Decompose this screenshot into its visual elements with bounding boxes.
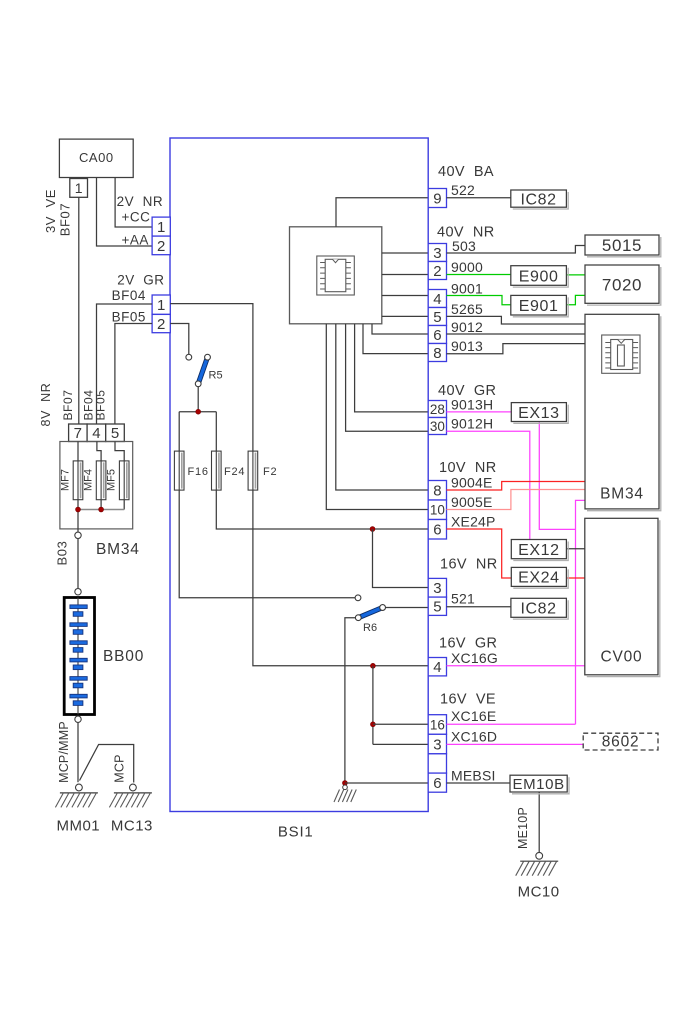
svg-text:5: 5 xyxy=(111,425,119,442)
wire BF05 pin2 to BM34 pin 5 xyxy=(115,324,152,425)
svg-text:F2: F2 xyxy=(263,466,277,478)
wire R6 to pin 5 521 xyxy=(386,607,429,609)
connector EX13 xyxy=(513,405,568,424)
BSI pin 5 (y 597.1) xyxy=(428,597,446,615)
svg-text:40V BA: 40V BA xyxy=(438,164,494,180)
switch R5 xyxy=(198,357,207,384)
BSI pin 2 (2V NR) xyxy=(152,236,170,255)
svg-text:BSI1: BSI1 xyxy=(278,824,314,841)
BM34 pin 7 xyxy=(69,424,88,442)
svg-text:9004E: 9004E xyxy=(451,474,492,490)
svg-text:3: 3 xyxy=(433,736,441,753)
BSI pin 2 (y 261.5) xyxy=(428,262,446,280)
wire branch to pin 3 XC16D xyxy=(373,743,428,745)
svg-text:9005E: 9005E xyxy=(451,494,492,510)
svg-text:6: 6 xyxy=(433,775,441,792)
wire BF07 from CA00 pin1 to BM34 pin 7 xyxy=(78,197,80,424)
wire F16 to switch R6 xyxy=(179,490,355,598)
BSI pin blank (y 753.8) xyxy=(428,754,446,773)
svg-text:MF7: MF7 xyxy=(60,469,72,491)
svg-text:XC16G: XC16G xyxy=(451,650,498,666)
connector IC82 (top) xyxy=(513,192,568,209)
wire R5 to fuse rail xyxy=(197,387,199,412)
wire XE24P to EX24 xyxy=(447,529,512,578)
connector CA00 xyxy=(59,139,133,177)
BSI pin 1 (2V NR) xyxy=(152,217,170,236)
fuse MF4 xyxy=(96,461,106,500)
box BM34 right xyxy=(587,316,661,510)
wire ECU to pin 9 xyxy=(336,198,428,227)
BSI pin 3 (y 243.5) xyxy=(428,244,446,262)
BM34 pin 4 xyxy=(87,424,106,442)
ground MM01 xyxy=(76,784,83,791)
wire 9013 to BM34 xyxy=(447,344,586,354)
BSI pin 10 (y 500) xyxy=(428,500,446,520)
svg-text:MF4: MF4 xyxy=(83,469,95,491)
BSI pin 30 (y 417.5) xyxy=(428,418,446,435)
svg-text:IC82: IC82 xyxy=(520,601,556,618)
connector node above battery xyxy=(75,589,81,595)
box 8602 (dashed) xyxy=(583,733,658,750)
svg-text:6: 6 xyxy=(433,327,441,344)
svg-text:1: 1 xyxy=(75,180,83,196)
wire rail to fuse F16 xyxy=(178,412,180,451)
box CV00 xyxy=(587,520,660,676)
svg-text:BB00: BB00 xyxy=(103,648,144,665)
svg-text:+CC: +CC xyxy=(122,209,151,224)
BSI pin 4 (y 657.5) xyxy=(428,658,446,676)
BSI pin 3 (y 734.3) xyxy=(428,734,446,754)
junction XC16E xyxy=(371,722,376,727)
wire 9013H to EX13 xyxy=(447,411,512,413)
wire 9013H ECU to pin 28 xyxy=(355,324,429,412)
wire MCP to ground MC13 xyxy=(80,745,134,783)
wire 5265 to BM34 xyxy=(447,316,586,324)
wire 522 to IC82 xyxy=(447,197,511,199)
svg-text:5015: 5015 xyxy=(602,236,642,255)
svg-text:5: 5 xyxy=(433,309,441,326)
svg-text:5: 5 xyxy=(433,599,441,616)
junction fusebox rail / MF7 xyxy=(76,507,81,512)
pin 1 of CA00 xyxy=(70,179,88,198)
svg-text:MCP: MCP xyxy=(112,754,126,782)
wire 9005E ECU to pin 10 xyxy=(326,324,428,510)
svg-text:8602: 8602 xyxy=(602,734,640,751)
wire branch to pin 3 16V NR xyxy=(373,529,429,588)
connector EM10B xyxy=(512,777,569,794)
wire XC16G to CV00 xyxy=(447,665,585,667)
wire B03 to battery xyxy=(77,539,79,589)
svg-text:2: 2 xyxy=(157,316,165,333)
svg-text:2V NR: 2V NR xyxy=(117,194,164,209)
wire F2 to pin 4 XC16G xyxy=(253,490,428,666)
svg-text:8: 8 xyxy=(433,483,441,500)
wire EX13 to magenta bus xyxy=(539,422,575,530)
svg-text:522: 522 xyxy=(451,182,475,198)
fuse MF5 xyxy=(119,461,129,500)
fuse feed rail xyxy=(179,411,216,413)
svg-text:E901: E901 xyxy=(519,298,559,315)
svg-text:16V GR: 16V GR xyxy=(439,635,497,651)
svg-text:MCP/MMP: MCP/MMP xyxy=(57,721,71,783)
magenta bus to BM34 xyxy=(576,500,585,724)
wire pin2 2VGR to switch R5 xyxy=(170,324,189,355)
BSI pin 9 (y 188.5) xyxy=(428,189,446,208)
svg-text:R5: R5 xyxy=(209,370,223,382)
svg-text:9000: 9000 xyxy=(451,259,483,275)
svg-text:521: 521 xyxy=(451,591,475,607)
svg-text:2: 2 xyxy=(433,263,441,280)
svg-text:CA00: CA00 xyxy=(79,150,114,165)
svg-text:BM34: BM34 xyxy=(96,541,140,558)
svg-text:EX13: EX13 xyxy=(518,405,560,422)
svg-text:IC82: IC82 xyxy=(520,191,556,208)
connector EX12 xyxy=(513,542,568,561)
svg-text:4: 4 xyxy=(433,291,441,308)
fuse F24 xyxy=(212,451,222,490)
wire to pin 6 MEBSI xyxy=(345,782,428,784)
svg-text:3: 3 xyxy=(433,580,441,597)
ECU box BSI1 xyxy=(170,138,428,812)
wire rail to fuse F24 xyxy=(215,412,217,451)
svg-text:16V NR: 16V NR xyxy=(440,557,498,573)
svg-text:BF05: BF05 xyxy=(112,310,146,325)
svg-text:1: 1 xyxy=(157,297,165,314)
svg-text:MF5: MF5 xyxy=(106,469,118,491)
svg-text:EX24: EX24 xyxy=(518,570,560,587)
svg-text:7: 7 xyxy=(74,425,82,442)
svg-text:9013H: 9013H xyxy=(451,396,493,412)
wire 9001 to E901 xyxy=(447,296,511,305)
connector IC82 (lower) xyxy=(513,600,568,619)
svg-text:10: 10 xyxy=(430,503,445,518)
svg-text:B03: B03 xyxy=(55,541,70,566)
svg-text:503: 503 xyxy=(452,238,476,254)
wire F24 to pin 6 XE24P xyxy=(216,490,428,529)
switch R6 xyxy=(358,608,382,618)
fusebox BM34 outline xyxy=(60,442,133,529)
wire 9012H ECU to pin 30 xyxy=(346,324,429,432)
wire 503 to 5015 xyxy=(447,246,586,254)
svg-text:MM01: MM01 xyxy=(56,818,100,835)
battery BB00 xyxy=(64,598,94,715)
wire branch to pin 16 XC16E xyxy=(373,723,428,725)
wire E900 to 7020 xyxy=(566,274,585,276)
svg-text:XC16D: XC16D xyxy=(451,729,497,745)
junction XE24P / 16V NR branch xyxy=(370,527,375,532)
svg-text:MC10: MC10 xyxy=(518,884,560,901)
BSI pin 16 (y 714.7) xyxy=(428,715,446,735)
IC chip symbol xyxy=(325,259,346,291)
wire pin4 to fuse MF4 xyxy=(97,442,101,510)
fuse MF7 xyxy=(73,461,83,500)
svg-text:6: 6 xyxy=(433,522,441,539)
wire E901 to 7020 xyxy=(566,295,585,304)
BSI pin 2 (2V GR) xyxy=(152,314,170,332)
svg-text:EX12: EX12 xyxy=(518,542,560,559)
wire R6 to internal ground xyxy=(345,618,356,783)
wire 503 ECU to pin 3 xyxy=(382,252,428,254)
svg-text:9012H: 9012H xyxy=(451,416,493,432)
wire MEBSI to EM10B xyxy=(447,782,511,784)
IC symbol frame xyxy=(317,256,355,295)
wire 9004E to BM34 xyxy=(447,482,585,491)
svg-text:3V VE: 3V VE xyxy=(43,189,58,233)
svg-text:BF05: BF05 xyxy=(94,389,108,420)
wire 9012 to BM34 xyxy=(447,333,586,335)
svg-text:F16: F16 xyxy=(188,466,209,478)
BSI pin 4 (y 289.5) xyxy=(428,290,446,308)
connector node below battery xyxy=(75,716,81,722)
wire 9000 to E900 xyxy=(447,274,511,276)
wire XC16D to 8602 xyxy=(447,743,584,745)
BSI pin 1 (2V GR) xyxy=(152,295,170,314)
svg-text:XC16E: XC16E xyxy=(451,708,496,724)
BSI pin 8 (y 480.5) xyxy=(428,481,446,501)
wire 521 to IC82 xyxy=(447,606,511,608)
svg-text:5265: 5265 xyxy=(451,301,483,317)
svg-text:9: 9 xyxy=(433,190,441,207)
svg-text:30: 30 xyxy=(430,419,445,434)
BSI pin 5 (y 307.5) xyxy=(428,308,446,326)
svg-text:1: 1 xyxy=(157,219,165,236)
svg-text:9001: 9001 xyxy=(451,280,483,296)
box 5015 xyxy=(587,237,661,257)
BSI pin 28 (y 400.5) xyxy=(428,401,446,418)
wire 9001 ECU to pin 4 xyxy=(382,295,428,297)
svg-text:16: 16 xyxy=(430,717,445,732)
svg-text:4: 4 xyxy=(92,425,100,442)
svg-text:XE24P: XE24P xyxy=(451,514,496,530)
junction MEBSI / ground xyxy=(343,781,348,786)
wire EX12 to CV00 xyxy=(566,548,584,550)
wire 9005E to BM34 xyxy=(447,490,585,510)
internal ground of BSI1 xyxy=(343,785,348,790)
connector E901 xyxy=(513,297,568,316)
svg-text:BF07: BF07 xyxy=(58,203,73,236)
svg-text:F24: F24 xyxy=(224,466,245,478)
BM34 fusebox pin 5 xyxy=(106,424,125,442)
svg-text:28: 28 xyxy=(430,402,445,417)
wire 9012H to EX12 xyxy=(447,431,530,539)
svg-text:16V VE: 16V VE xyxy=(440,692,496,708)
wire 9004E ECU to pin 8 xyxy=(336,324,428,490)
connector node below fusebox xyxy=(75,532,81,538)
svg-text:2V GR: 2V GR xyxy=(117,272,164,287)
wire 5265 ECU to pin 5 xyxy=(382,315,428,317)
wire +AA from CA00 to BSI pin 2 xyxy=(97,178,153,247)
svg-text:BF04: BF04 xyxy=(112,288,146,303)
box 7020 xyxy=(587,267,661,305)
wire 9000 ECU to pin 2 xyxy=(382,274,428,276)
ground MC13 xyxy=(130,784,137,791)
wire through fuse MF7 xyxy=(77,442,79,532)
svg-text:3: 3 xyxy=(433,245,441,262)
svg-text:BM34: BM34 xyxy=(600,486,644,503)
svg-text:8: 8 xyxy=(433,345,441,362)
connector E900 xyxy=(513,268,568,287)
internal ECU block xyxy=(290,227,382,324)
wire MCP/MMP battery to ground MM01 xyxy=(77,723,79,783)
svg-text:BF07: BF07 xyxy=(61,389,75,420)
ground MC10 xyxy=(536,852,543,859)
wire EX24 to CV00 xyxy=(566,577,584,579)
wire pin1 2VGR to fuse F2 xyxy=(170,304,253,452)
wire pin5 to fuse MF5 xyxy=(115,442,124,510)
wire BF04 pin1 to BM34 pin 4 xyxy=(97,304,153,424)
svg-text:4: 4 xyxy=(433,659,441,676)
svg-text:9012: 9012 xyxy=(451,319,483,335)
svg-text:E900: E900 xyxy=(519,268,559,285)
junction XC16G / XC16E branch xyxy=(371,663,376,668)
svg-text:7020: 7020 xyxy=(602,275,642,294)
BSI pin 6 (y 773.1) xyxy=(428,773,446,792)
junction R5 / fuse rail xyxy=(196,409,201,414)
svg-text:2: 2 xyxy=(157,238,165,255)
svg-text:EM10B: EM10B xyxy=(512,776,564,793)
svg-text:ME10P: ME10P xyxy=(516,807,530,849)
svg-text:MEBSI: MEBSI xyxy=(451,768,496,784)
wire XC16E pin16 to bus xyxy=(447,723,576,725)
wire ME10P EM10B to ground MC10 xyxy=(538,792,540,854)
BSI pin 6 (y 519.5) xyxy=(428,520,446,540)
fuse F2 xyxy=(248,451,258,490)
BSI pin 8 (y 343.5) xyxy=(428,344,446,362)
svg-text:9013: 9013 xyxy=(451,338,483,354)
fusebox output rail xyxy=(78,509,124,511)
wire 9013 ECU to pin 8 xyxy=(363,324,428,354)
fuse F16 xyxy=(174,451,184,490)
junction fusebox rail / MF4 xyxy=(99,507,104,512)
svg-text:+AA: +AA xyxy=(122,232,149,247)
svg-text:8V NR: 8V NR xyxy=(39,383,53,427)
svg-text:R6: R6 xyxy=(363,622,377,634)
svg-text:CV00: CV00 xyxy=(601,649,643,666)
svg-text:MC13: MC13 xyxy=(111,818,153,835)
wire +CC from CA00 to BSI pin 1 xyxy=(115,178,152,228)
BSI pin 3 (y 578.4) xyxy=(428,578,446,597)
BSI pin 6 (y 325.5) xyxy=(428,326,446,344)
wire 9012 ECU to pin 6 xyxy=(372,324,428,334)
wire branch down 16V VE xyxy=(372,666,374,745)
IC symbol in BM34 xyxy=(602,335,640,373)
connector EX24 xyxy=(513,569,568,588)
